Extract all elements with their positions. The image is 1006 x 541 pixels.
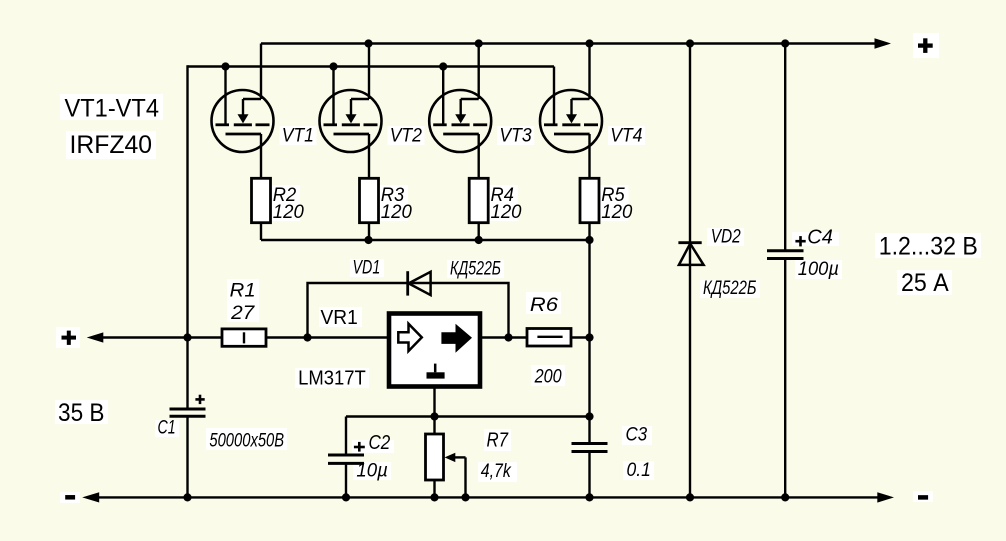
- wire bottom rail: [96, 496, 878, 498]
- transistor VT2: [320, 90, 382, 152]
- wire source VT1: [260, 134, 262, 178]
- transistor VT4: [540, 90, 602, 152]
- svg-text:200: 200: [534, 367, 562, 388]
- label output voltage: [879, 233, 978, 298]
- label VT2: [390, 126, 423, 147]
- svg-text:35 В: 35 В: [58, 399, 105, 427]
- label C1 value: [158, 418, 285, 452]
- wire top output rail: [261, 42, 877, 44]
- svg-text:VD1: VD1: [353, 258, 381, 279]
- wire gate VT3: [442, 67, 444, 125]
- svg-text:120: 120: [601, 202, 632, 223]
- svg-text:VT1-VT4: VT1-VT4: [65, 94, 160, 122]
- svg-text:120: 120: [491, 202, 522, 223]
- capacitor C3: [572, 444, 608, 498]
- label VD2 type: [703, 278, 757, 299]
- arrow input: [87, 332, 222, 342]
- wire R5 to bus: [588, 223, 590, 240]
- label R2 value: [273, 185, 304, 223]
- wire VR1 adj pin: [433, 387, 435, 417]
- resistor R3: [360, 178, 379, 222]
- wire drain VT2: [368, 44, 370, 100]
- wire VD1 branch: [308, 283, 509, 338]
- arrow bottom left: [82, 492, 99, 502]
- svg-text:VT1: VT1: [282, 126, 314, 147]
- resistor R5: [580, 178, 599, 222]
- wire gate VT1: [224, 67, 226, 125]
- wire R4 to bus: [478, 223, 480, 240]
- wire source VT2: [368, 134, 370, 178]
- wire R6 to node: [571, 336, 590, 338]
- wire gate rail: [188, 65, 555, 67]
- op-amp U1 VR1 LM317 box: [389, 314, 480, 387]
- wire R2 to bus: [260, 223, 262, 240]
- wire VR1 output: [480, 336, 527, 338]
- label VT3: [499, 126, 532, 147]
- label 35 V: [58, 399, 105, 427]
- svg-text:VT4: VT4: [610, 126, 642, 147]
- transistor VT1: [212, 90, 274, 152]
- svg-text:100µ: 100µ: [798, 259, 839, 280]
- svg-text:VD2: VD2: [711, 227, 741, 248]
- resistor R4: [469, 178, 488, 222]
- label R6 value: [530, 295, 562, 388]
- label C4 value: [798, 227, 839, 280]
- capacitor C2: [328, 417, 365, 498]
- svg-text:10µ: 10µ: [356, 461, 388, 482]
- wire gate VT4: [553, 67, 555, 125]
- svg-text:50000x50В: 50000x50В: [209, 431, 284, 452]
- label R3 value: [381, 185, 412, 223]
- diode VD2: [678, 44, 703, 498]
- node bottom rail dots: [183, 493, 789, 501]
- resistor R6: [527, 329, 571, 347]
- svg-text:25 А: 25 А: [901, 269, 949, 297]
- svg-text:VT3: VT3: [499, 126, 532, 147]
- wire drain VT1: [260, 44, 262, 100]
- node bus dots: [364, 236, 593, 244]
- svg-text:КД522Б: КД522Б: [450, 258, 501, 279]
- node adj dot: [430, 412, 438, 420]
- wire adj horizontal: [346, 415, 590, 417]
- label C2 value: [356, 432, 390, 481]
- label VT4: [610, 126, 642, 147]
- svg-text:КД522Б: КД522Б: [703, 278, 757, 299]
- svg-text:C4: C4: [807, 227, 833, 249]
- wire source bus: [261, 239, 590, 241]
- label VR1: [321, 307, 358, 329]
- label VT1: [282, 126, 314, 147]
- wire drain VT3: [478, 44, 480, 100]
- svg-text:C2: C2: [369, 432, 391, 454]
- label VD1 type: [450, 258, 501, 279]
- capacitor C1: [170, 338, 206, 498]
- wire R1 to VR1: [266, 336, 389, 338]
- label R1 value: [230, 281, 256, 324]
- svg-text:0.1: 0.1: [627, 460, 651, 481]
- svg-text:IRFZ40: IRFZ40: [70, 131, 153, 159]
- terminal + input: [62, 331, 77, 345]
- svg-text:R1: R1: [230, 281, 256, 302]
- node top rail right dots: [686, 39, 789, 47]
- terminal - input: [65, 495, 75, 500]
- wire adj to R7: [433, 417, 435, 435]
- label backgrounds: [55, 33, 981, 503]
- arrow output +: [875, 38, 892, 48]
- svg-text:LM317T: LM317T: [298, 368, 366, 390]
- resistor R2: [252, 178, 271, 222]
- terminal + output: [918, 38, 933, 53]
- label R5 value: [601, 185, 632, 223]
- label R4 value: [491, 185, 522, 223]
- svg-text:C3: C3: [626, 425, 648, 446]
- label C3 value: [626, 425, 651, 482]
- wire gate VT2: [332, 67, 334, 125]
- svg-text:120: 120: [381, 202, 412, 223]
- node gate rail dots: [221, 62, 447, 70]
- wire drain VT4: [588, 44, 590, 100]
- wire R3 to bus: [368, 223, 370, 240]
- wire source VT3: [478, 134, 480, 178]
- capacitor C4: [767, 44, 806, 498]
- svg-text:C1: C1: [158, 418, 176, 439]
- terminal - output: [918, 495, 928, 500]
- label VT1-VT4 IRFZ40: [65, 94, 160, 158]
- node column dots: [585, 333, 593, 420]
- label VD1: [353, 258, 381, 279]
- wire source VT4: [588, 134, 590, 178]
- wire output sense column: [588, 240, 590, 444]
- wire left input vertical: [186, 65, 188, 337]
- label LM317T: [298, 368, 366, 390]
- diode VD1: [408, 271, 431, 295]
- label VD2: [711, 227, 741, 248]
- label R7 value: [481, 429, 512, 482]
- node VR1 output dot: [504, 333, 512, 341]
- resistor R1: [222, 329, 266, 346]
- svg-text:120: 120: [273, 202, 304, 223]
- svg-text:4,7k: 4,7k: [481, 461, 512, 482]
- node top rail dots: [364, 39, 593, 47]
- svg-text:R6: R6: [530, 295, 558, 316]
- node input dots: [183, 333, 311, 341]
- resistor R7 potentiometer: [426, 434, 466, 497]
- svg-text:R7: R7: [487, 429, 509, 451]
- transistor VT3: [429, 90, 491, 152]
- svg-text:VR1: VR1: [321, 307, 358, 329]
- svg-text:1.2...32 В: 1.2...32 В: [879, 233, 978, 261]
- svg-text:27: 27: [230, 303, 256, 324]
- arrow bottom right: [877, 492, 894, 502]
- svg-text:VT2: VT2: [390, 126, 423, 147]
